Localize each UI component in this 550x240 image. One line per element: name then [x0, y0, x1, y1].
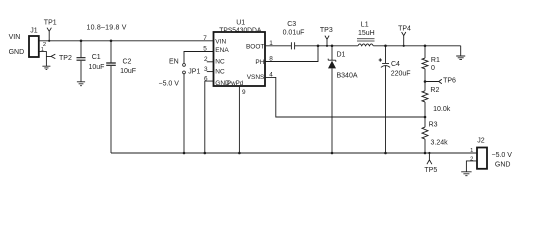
svg-text:U1: U1: [236, 20, 245, 27]
wire R2 to feedback node: [424, 102, 426, 117]
svg-text:2: 2: [470, 157, 473, 163]
ground (C1): [77, 82, 85, 86]
svg-text:PH: PH: [255, 59, 264, 66]
svg-text:JP1: JP1: [188, 69, 200, 76]
node TP1 junction: [48, 40, 50, 42]
node C1 junction: [80, 40, 83, 43]
wire C2 top: [110, 41, 112, 63]
svg-text:L1: L1: [361, 22, 369, 29]
test point TP1: [47, 28, 51, 41]
svg-text:10.8–19.8 V: 10.8–19.8 V: [87, 24, 127, 31]
svg-text:10uF: 10uF: [120, 68, 136, 75]
wire bottom rail (-5.0 V net): [111, 152, 477, 154]
capacitor C1: [77, 58, 86, 61]
node TP5 junction: [428, 152, 430, 154]
node C4 rail junction: [384, 152, 387, 155]
node PwPd rail junction: [238, 152, 241, 155]
inductor L1: [358, 44, 373, 46]
node JP1 rail junction: [183, 152, 186, 155]
wire C2 bottom: [110, 66, 112, 153]
resistor R3: [422, 127, 428, 139]
svg-text:TP2: TP2: [59, 55, 72, 62]
wire D1 anode to bottom rail: [331, 68, 333, 153]
svg-text:VSNS: VSNS: [247, 74, 265, 81]
resistor R1: [422, 58, 428, 69]
wire R3 to bottom rail: [424, 139, 426, 153]
svg-text:−5.0 V: −5.0 V: [492, 152, 513, 159]
wire output line: [373, 45, 460, 47]
test point TP4: [402, 32, 406, 46]
svg-text:0: 0: [431, 65, 435, 72]
svg-text:2: 2: [204, 56, 208, 63]
node GND pin rail junction: [204, 152, 207, 155]
node R1 junction: [424, 45, 427, 48]
node feedback junction: [424, 116, 427, 119]
test point TP6: [425, 79, 442, 83]
capacitor C2: [106, 63, 116, 65]
wire pin 9 PwPd to bottom rail: [238, 86, 240, 153]
node R3 rail junction: [424, 152, 427, 155]
svg-text:1: 1: [41, 47, 44, 53]
wire TP6 node to R2: [424, 82, 426, 91]
node TP6 junction: [424, 80, 427, 83]
wire C3 to switch node: [295, 45, 358, 47]
svg-text:1: 1: [470, 148, 473, 154]
svg-text:GND: GND: [495, 162, 511, 169]
svg-text:GND: GND: [9, 49, 25, 56]
svg-text:TP3: TP3: [320, 27, 333, 34]
wire R1 top: [424, 46, 426, 58]
resistor R2: [422, 91, 428, 102]
wire PH riser: [265, 46, 318, 62]
node C4 junction: [384, 45, 387, 48]
svg-text:220uF: 220uF: [391, 70, 411, 77]
svg-text:J1: J1: [30, 28, 38, 35]
node TP4 junction: [403, 45, 405, 47]
svg-text:C3: C3: [287, 21, 296, 28]
diode D1 schottky: [328, 59, 336, 62]
svg-text:C1: C1: [92, 54, 101, 61]
plus sign (C4): [379, 58, 382, 61]
node PH junction: [317, 45, 320, 48]
pin 2 stub: [207, 61, 214, 63]
connector J2: [477, 148, 487, 169]
ground (J1): [42, 66, 50, 69]
svg-text:R3: R3: [429, 122, 438, 129]
pin 3 stub: [207, 71, 214, 73]
wire JP1 to bottom rail: [183, 74, 185, 153]
jumper JP1 pin 1: [183, 64, 186, 67]
svg-text:10.0k: 10.0k: [433, 106, 451, 113]
jumper JP1 pin 2: [183, 71, 186, 74]
wire BOOT to C3: [265, 45, 291, 47]
wire VIN rail: [39, 40, 214, 42]
connector J1: [29, 36, 39, 57]
node D1 rail junction: [331, 152, 334, 155]
wire C4 bottom to rail: [385, 66, 387, 153]
node TP3 junction: [326, 45, 328, 47]
svg-text:3.24k: 3.24k: [431, 140, 449, 147]
test point TP3: [325, 36, 329, 46]
ground (output rail right end): [456, 46, 465, 60]
svg-text:ENA: ENA: [215, 47, 229, 54]
svg-text:3: 3: [204, 66, 208, 73]
wire D1 cathode: [331, 46, 333, 60]
wire C1 bottom: [80, 61, 82, 82]
svg-text:J2: J2: [477, 137, 485, 144]
svg-text:10uF: 10uF: [89, 64, 105, 71]
svg-text:7: 7: [203, 35, 207, 42]
inductor L1 core bars: [357, 39, 375, 41]
wire feedback node to R3: [424, 117, 426, 127]
svg-text:5: 5: [203, 46, 207, 53]
svg-text:R1: R1: [431, 57, 440, 64]
wire J1 pin1 to ground: [39, 52, 47, 66]
svg-text:C2: C2: [123, 58, 132, 65]
wire C4 top: [385, 46, 387, 64]
capacitor C4 polarized: [381, 63, 390, 67]
svg-text:B340A: B340A: [337, 72, 358, 79]
svg-text:PwPd: PwPd: [227, 80, 244, 87]
wire J2 pin2 to ground: [466, 161, 477, 172]
svg-text:TP4: TP4: [398, 25, 411, 32]
svg-text:NC: NC: [215, 58, 225, 65]
wire VSNS feedback: [265, 77, 425, 117]
svg-text:TP1: TP1: [44, 19, 57, 26]
svg-text:BOOT: BOOT: [246, 44, 264, 51]
node D1 junction: [331, 45, 334, 48]
svg-text:C4: C4: [391, 61, 400, 68]
wire pin 6 to bottom rail: [205, 81, 214, 153]
svg-text:TP6: TP6: [443, 78, 456, 85]
svg-text:VIN: VIN: [9, 34, 21, 41]
wire R1 to TP6 node: [424, 69, 426, 82]
wire ENA to JP1: [184, 52, 214, 64]
wire C1 top: [80, 41, 82, 58]
svg-text:TPS5430DDA: TPS5430DDA: [219, 28, 261, 35]
ground (J2): [461, 172, 471, 176]
svg-text:TP5: TP5: [424, 167, 437, 174]
svg-text:9: 9: [242, 89, 246, 96]
svg-text:EN: EN: [169, 58, 179, 65]
svg-text:D1: D1: [337, 51, 346, 58]
svg-text:VIN: VIN: [215, 38, 226, 45]
IC U1 TPS5430DDA: [214, 32, 266, 86]
node C2 junction: [110, 40, 113, 43]
svg-text:0.01uF: 0.01uF: [283, 29, 305, 36]
svg-text:15uH: 15uH: [358, 30, 375, 37]
test point TP2: [46, 54, 55, 58]
capacitor C3: [291, 42, 294, 49]
svg-text:R2: R2: [430, 87, 439, 94]
test point TP5: [427, 153, 432, 164]
svg-text:NC: NC: [215, 68, 225, 75]
svg-text:−5.0 V: −5.0 V: [159, 81, 180, 88]
